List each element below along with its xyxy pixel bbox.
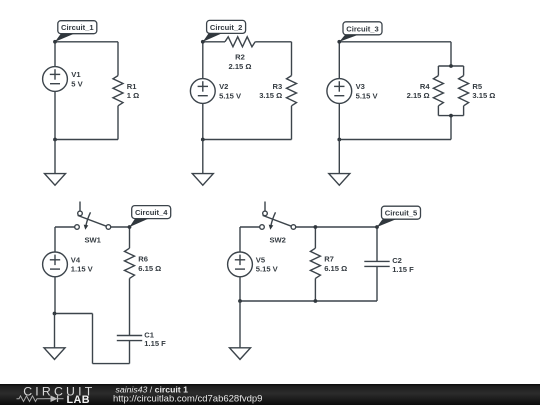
voltage source V2 [190,79,242,104]
svg-text:V4: V4 [71,255,81,264]
capacitor C2 [364,256,414,274]
wire left upper [54,42,56,67]
svg-text:1.15 F: 1.15 F [144,339,166,348]
voltage source V4 [43,252,94,277]
wire left upper c2 [202,42,204,79]
wire jog right [55,313,93,315]
wire C1 bottom [129,341,131,364]
svg-text:5.15 V: 5.15 V [356,91,379,100]
voltage source V5 [228,252,279,277]
wire R6 to C1 [129,278,131,335]
svg-text:R6: R6 [138,255,148,264]
svg-text:1 Ω: 1 Ω [127,91,139,100]
ground c4 [44,314,65,360]
footer bar [0,384,540,405]
svg-text:5.15 V: 5.15 V [219,91,242,100]
label pointer [377,219,396,227]
wire bottom c5 [240,300,377,302]
capacitor C1 [117,331,166,349]
wire left upper c3 [338,42,340,79]
wire right upper c2 [291,42,293,76]
resistor R5 [459,66,496,116]
svg-text:2.15 Ω: 2.15 Ω [407,91,430,100]
svg-text:3.15 Ω: 3.15 Ω [472,91,495,100]
node sw2-R7 [314,225,318,229]
node top-left c2 [201,40,205,44]
resistor R3 [259,76,296,106]
wire bottom [55,139,118,141]
svg-text:1.15 V: 1.15 V [71,265,94,274]
svg-text:C1: C1 [144,331,154,340]
wire bottom c2 [203,139,292,141]
svg-text:R3: R3 [272,82,282,91]
svg-text:SW2: SW2 [269,236,285,245]
svg-text:V1: V1 [71,70,81,79]
wire sw1 right [111,226,130,228]
ground c1 [45,140,66,186]
svg-text:1.15 F: 1.15 F [392,265,414,274]
wire right stub upper c3 [450,42,452,66]
node top-left c3 [337,40,341,44]
label Circuit_1 [58,21,97,34]
label pointer [55,34,74,42]
wire R7 top stub [314,227,316,248]
resistor R2 [225,37,255,71]
svg-text:Circuit_4: Circuit_4 [135,208,168,217]
wire sw2 left [240,226,260,228]
wire top-left c2 [203,41,225,43]
wire left lower c2 [202,103,204,139]
wire R7 bottom [314,278,316,301]
svg-text:5 V: 5 V [71,79,83,88]
wire right lower c2 [291,106,293,140]
wire V5 bottom [239,277,241,301]
svg-text:Circuit_2: Circuit_2 [210,23,243,32]
wire left lower [54,91,56,139]
wire right stub lower c3 [450,116,452,140]
ground c2 [192,140,213,186]
wire right lower [117,106,119,140]
label pointer [339,35,358,42]
node top-left c1 [53,40,57,44]
wire sw2 right [296,226,377,228]
resistor R1 [113,76,139,106]
wire V4 bottom [54,277,56,314]
wire jog bottom [93,363,130,365]
logo squiggle resistor [17,396,45,402]
svg-text:2.15 Ω: 2.15 Ω [229,62,252,71]
label Circuit_5 [382,206,421,219]
wire right upper [117,42,119,76]
svg-text:6.15 Ω: 6.15 Ω [138,264,161,273]
svg-text:V3: V3 [356,82,365,91]
wire sw1 left [55,226,75,228]
svg-text:R2: R2 [235,52,245,61]
ground c5 [230,301,251,359]
svg-text:Circuit_1: Circuit_1 [61,23,94,32]
svg-text:3.15 Ω: 3.15 Ω [259,91,282,100]
svg-text:SW1: SW1 [84,236,101,245]
node parallel top [449,64,453,68]
wire bottom c3 [339,139,451,141]
resistor R6 [125,248,162,278]
wire parallel top bar [438,65,463,67]
wire R6 top stub [129,227,131,248]
wire C2 top [376,227,378,261]
node bottom-left c3 [337,138,341,142]
svg-text:R1: R1 [127,82,137,91]
wire parallel bottom bar [438,115,463,117]
switch SW2 [260,202,296,245]
voltage source V1 [43,67,84,92]
wire C2 bottom [376,266,378,301]
svg-text:R4: R4 [420,82,430,91]
svg-text:5.15 V: 5.15 V [256,265,279,274]
node bottom-left c1 [53,138,57,142]
switch SW1 [75,202,111,245]
wire jog down [92,314,94,364]
svg-text:6.15 Ω: 6.15 Ω [324,264,347,273]
wire top c3 [339,41,451,43]
node parallel bottom [449,114,453,118]
label Circuit_4 [132,206,171,219]
svg-text:Circuit_3: Circuit_3 [346,24,379,33]
wire V4 top [54,227,56,252]
label Circuit_2 [207,20,246,33]
node V5 bottom [238,299,242,303]
voltage source V3 [327,79,379,104]
ground c3 [329,140,350,186]
node R7 bottom [314,299,318,303]
wire left lower c3 [338,103,340,139]
node bottom-left c2 [201,138,205,142]
svg-text:V5: V5 [256,255,266,264]
label Circuit_3 [343,22,382,35]
label pointer [203,33,222,41]
svg-text:http://circuitlab.com/cd7ab628: http://circuitlab.com/cd7ab628fvdp9 [113,394,262,405]
wire top [55,41,118,43]
label pointer [130,219,149,227]
node C2 top [375,225,379,229]
node sw1-R6 [128,225,132,229]
svg-text:R5: R5 [472,82,482,91]
svg-text:LAB: LAB [67,394,90,405]
svg-text:V2: V2 [219,82,228,91]
wire top-right c2 [255,41,291,43]
logo diode [51,395,58,402]
resistor R4 [407,66,444,116]
svg-text:R7: R7 [324,255,334,264]
resistor R7 [310,248,347,278]
node V4 bottom [53,312,57,316]
svg-text:Circuit_5: Circuit_5 [385,209,418,218]
wire V5 top [239,227,241,252]
svg-text:C2: C2 [392,256,402,265]
